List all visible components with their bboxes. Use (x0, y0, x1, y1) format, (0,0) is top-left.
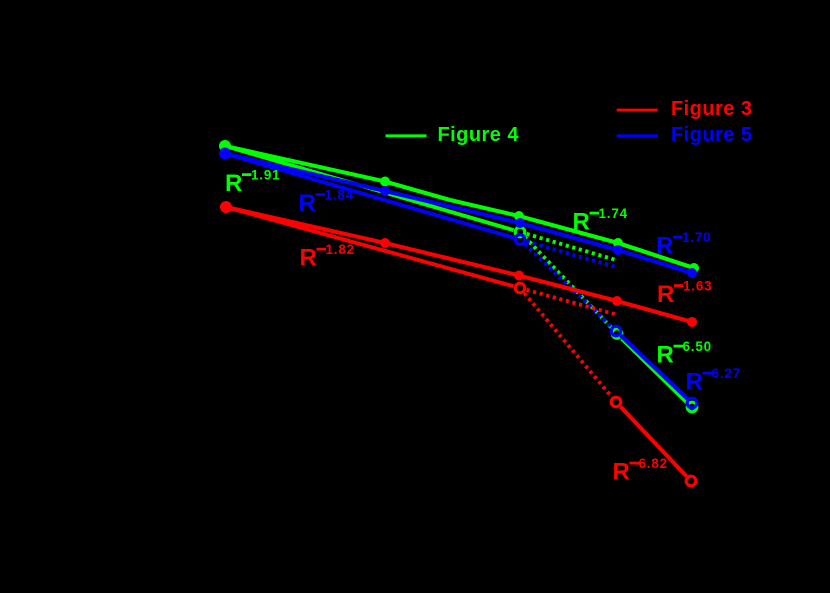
svg-text:1.91: 1.91 (251, 168, 280, 183)
svg-text:R: R (686, 369, 703, 396)
svg-text:1.84: 1.84 (325, 188, 354, 203)
svg-text:R: R (300, 245, 317, 272)
svg-text:1.70: 1.70 (682, 230, 711, 245)
svg-text:Figure 4: Figure 4 (438, 124, 520, 146)
svg-text:R: R (657, 281, 674, 308)
svg-text:6.82: 6.82 (639, 456, 668, 471)
svg-text:1.63: 1.63 (683, 279, 712, 294)
svg-text:1.82: 1.82 (326, 242, 355, 257)
svg-text:R: R (225, 170, 242, 197)
svg-text:R: R (299, 190, 316, 217)
svg-text:6.50: 6.50 (683, 339, 712, 354)
svg-text:R: R (573, 209, 590, 236)
svg-text:R: R (656, 233, 673, 260)
svg-text:R: R (613, 459, 630, 486)
svg-text:Figure 5: Figure 5 (671, 124, 752, 146)
svg-text:R: R (657, 342, 674, 369)
svg-text:6.27: 6.27 (712, 366, 741, 381)
svg-text:Figure 3: Figure 3 (671, 98, 752, 120)
svg-text:1.74: 1.74 (599, 206, 628, 221)
